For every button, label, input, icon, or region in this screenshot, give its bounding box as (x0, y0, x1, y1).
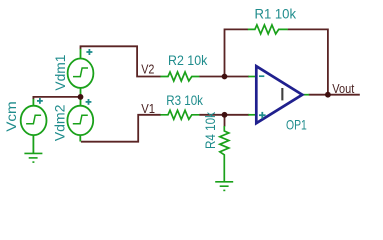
svg-text:OP1: OP1 (286, 117, 307, 133)
junction node C (sources) (78, 94, 84, 100)
svg-text:Vcm: Vcm (4, 101, 19, 132)
wire output to Vout end (309, 94, 360, 96)
op-amp input stub minus (248, 76, 256, 78)
wire R2 right to op-amp minus (199, 76, 249, 78)
source Vdm2 (67, 106, 93, 142)
wire Vcm top to junction C (33, 97, 80, 100)
op-amp output stub (302, 94, 309, 96)
plus sign Vcm (37, 98, 43, 104)
svg-text:R2 10k: R2 10k (168, 52, 208, 68)
svg-text:Vdm1: Vdm1 (53, 55, 68, 91)
resistor R2 (160, 72, 199, 81)
op-amp minus sign (259, 75, 264, 77)
svg-text:V1: V1 (141, 101, 155, 116)
wire feedback top right and down to output (288, 29, 328, 94)
junction node Vout (325, 92, 331, 98)
op-amp input stub plus (248, 114, 256, 116)
junction node A (minus input) (222, 74, 228, 80)
svg-text:R4 10k: R4 10k (203, 112, 218, 149)
ground under Vcm (24, 153, 42, 162)
wire Vdm2 bottom to V1 corner (81, 115, 161, 142)
op-amp plus sign (259, 112, 266, 119)
resistor R4 (220, 126, 229, 181)
wire feedback riser (225, 29, 249, 76)
wire junction B down to R4 (224, 115, 226, 127)
plus sign Vdm2 (86, 99, 92, 105)
op-amp I bar (281, 88, 283, 100)
svg-text:R3 10k: R3 10k (166, 92, 204, 108)
ground under R4 (215, 182, 233, 191)
resistor R3 (160, 110, 199, 119)
svg-text:Vdm2: Vdm2 (53, 105, 68, 142)
source Vdm1 (68, 49, 94, 106)
source Vcm (21, 99, 47, 153)
plus sign Vdm1 (86, 49, 92, 55)
resistor R1 (248, 25, 288, 34)
svg-text:V2: V2 (141, 61, 154, 76)
op-amp U1 triangle (256, 66, 302, 123)
wire R3 right to op-amp plus (199, 114, 249, 116)
junction node B (plus input) (222, 112, 228, 118)
svg-text:R1 10k: R1 10k (255, 5, 297, 21)
svg-text:Vout: Vout (332, 81, 354, 96)
wire Vdm1 top to V2 corner (81, 46, 161, 76)
